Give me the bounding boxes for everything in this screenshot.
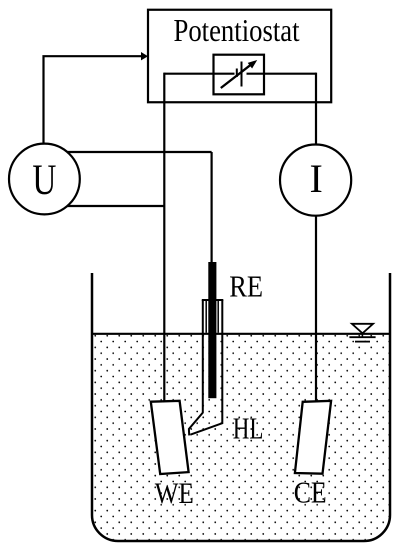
svg-text:HL: HL	[233, 412, 264, 446]
wire: U bottom-right to WE line	[60, 205, 164, 207]
voltmeter U	[9, 144, 80, 215]
variable source arrow	[221, 64, 252, 88]
potentiostat box	[148, 10, 331, 103]
battery short plate	[236, 69, 238, 78]
variable source box	[214, 55, 265, 95]
svg-text:WE: WE	[155, 477, 194, 510]
Luggin capillary tube left wall	[189, 300, 203, 435]
electrolyte liquid (dotted fill)	[92, 333, 390, 541]
svg-text:CE: CE	[294, 475, 327, 509]
ammeter I	[280, 145, 351, 216]
beaker	[92, 273, 390, 541]
svg-text:U: U	[32, 157, 56, 204]
wire: internal horizontal left stub	[164, 73, 234, 75]
svg-text:I: I	[310, 156, 323, 201]
svg-text:Potentiostat: Potentiostat	[174, 12, 300, 48]
working electrode WE	[151, 401, 189, 474]
tube inner wall left	[205, 301, 207, 333]
water level symbol	[349, 324, 375, 342]
wire: U top-right to RE	[60, 151, 212, 153]
reference electrode rod RE	[208, 262, 216, 398]
wire: internal horizontal right stub	[247, 73, 317, 75]
wire: RE vertical	[211, 152, 213, 270]
wire: U top to potentiostat (with arrow)	[44, 56, 142, 145]
liquid surface line	[92, 333, 390, 335]
battery long plate	[241, 62, 243, 87]
wire: potentiostat right vertical to I	[315, 73, 317, 146]
tube top cap	[202, 299, 224, 301]
wire: I bottom to CE	[315, 215, 317, 402]
wire: potentiostat left vertical down to WE	[163, 73, 165, 402]
counter electrode CE	[295, 401, 331, 474]
svg-text:RE: RE	[229, 270, 263, 304]
Luggin capillary tube right wall	[190, 300, 222, 435]
tube inner wall right	[217, 301, 219, 333]
